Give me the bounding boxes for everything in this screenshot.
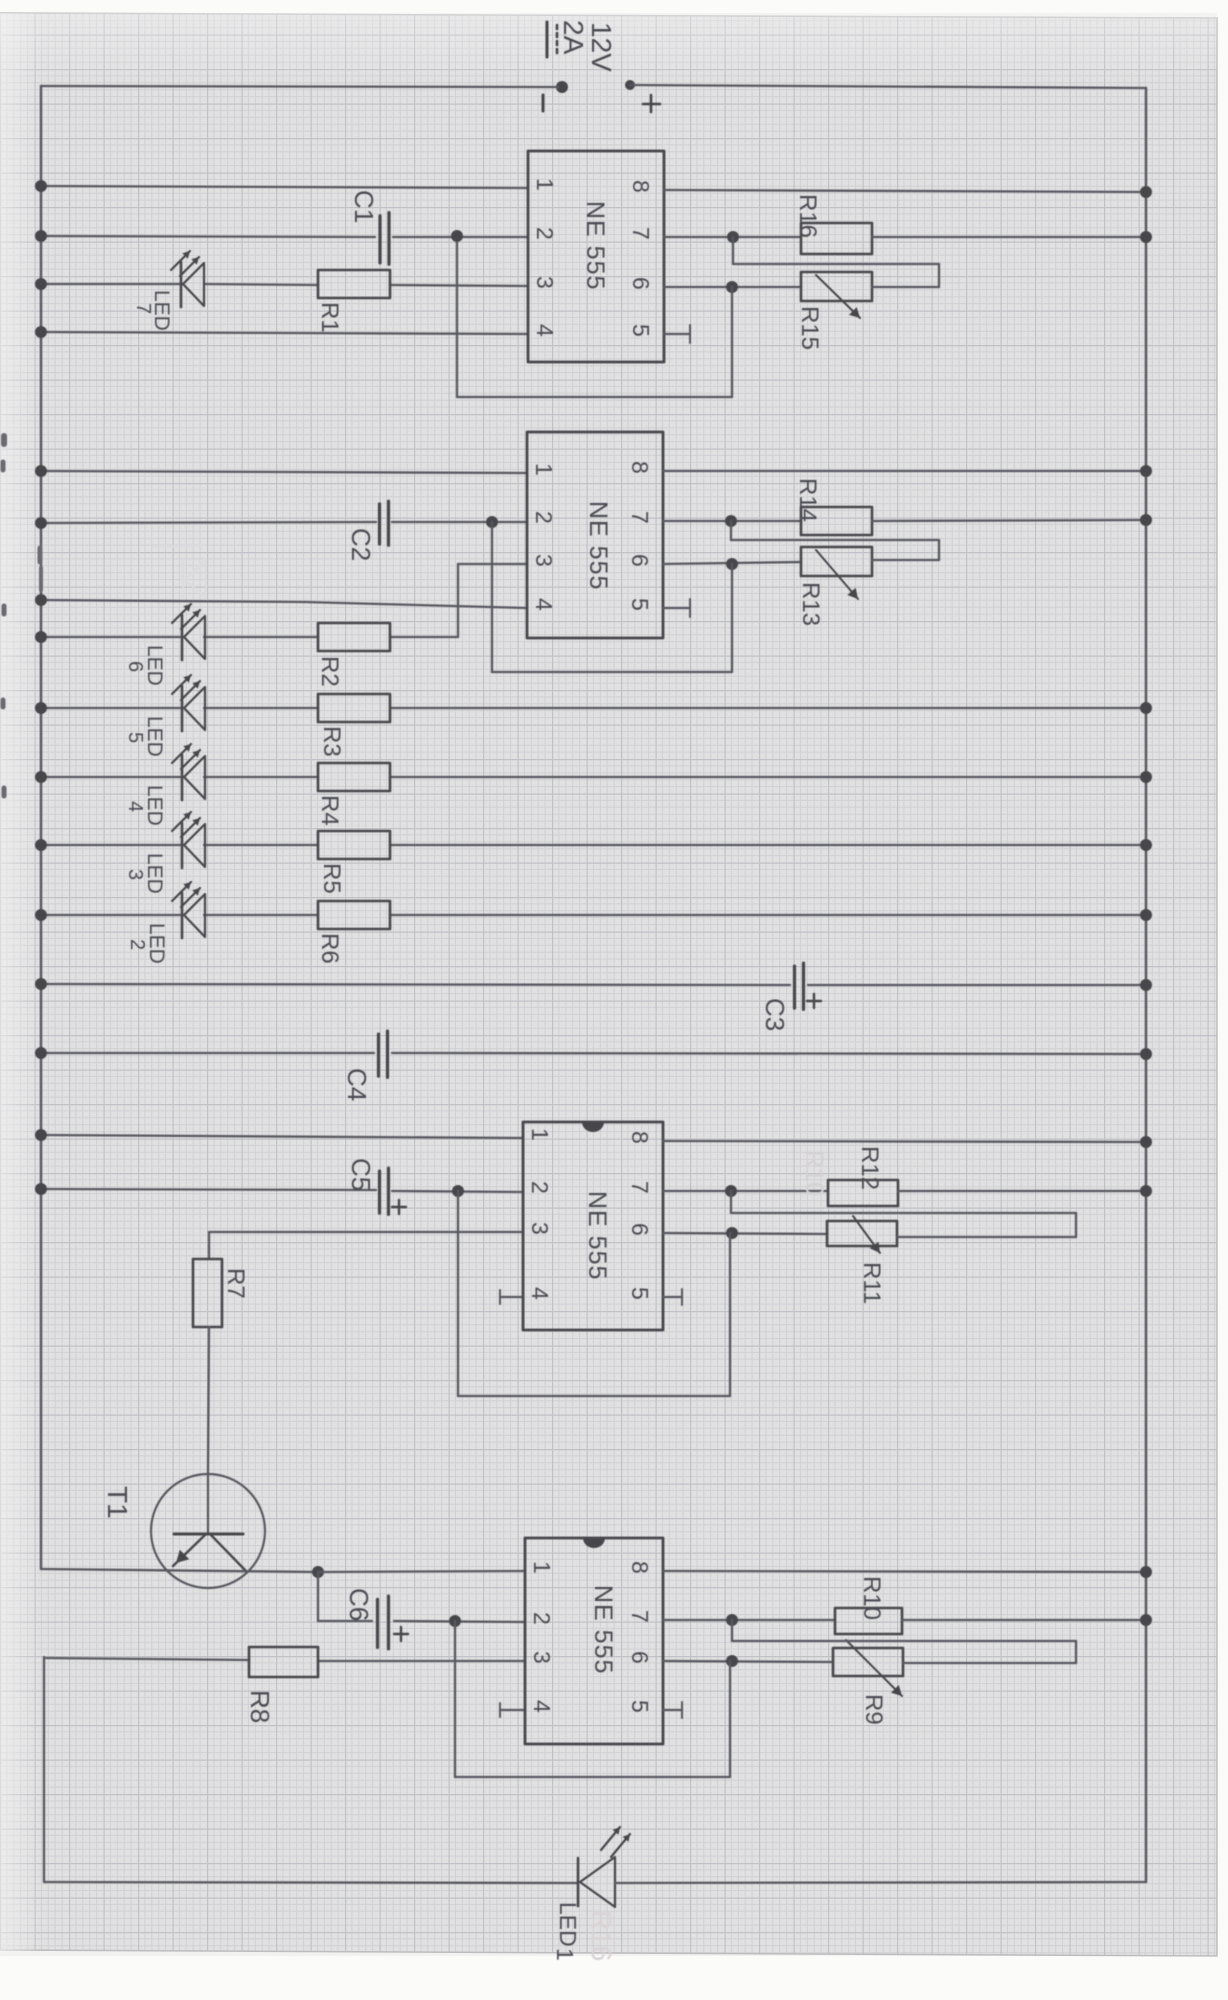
wire C3 rail [41, 984, 790, 985]
resistor R16 [801, 223, 872, 254]
svg-text:1: 1 [531, 463, 557, 476]
potentiometer R13 [801, 547, 872, 576]
wire IC1 pin8 to V+ [664, 190, 1146, 192]
svg-text:NE 555: NE 555 [584, 501, 612, 590]
LED4 [181, 755, 184, 800]
resistor R5 [318, 831, 390, 859]
wire R9 wiper loop [731, 1620, 733, 1641]
svg-text:5: 5 [627, 1700, 653, 1713]
wire IC2 pin1 rail [41, 471, 527, 473]
wire IC4 pin7 rail [663, 1619, 835, 1621]
svg-text:R10: R10 [858, 1576, 885, 1620]
svg-text:4: 4 [531, 598, 557, 611]
svg-text:1: 1 [552, 1948, 578, 1961]
ghost erased led [152, 545, 206, 598]
wire IC3 pin7 rail [663, 1190, 828, 1192]
wire R15 wiper loop [732, 237, 734, 264]
svg-text:R3: R3 [318, 726, 345, 757]
wire top rail right [630, 85, 1146, 88]
svg-text:1: 1 [532, 178, 558, 191]
svg-text:T1: T1 [102, 1486, 133, 1519]
smudge marks [3, 436, 41, 796]
svg-text:6: 6 [627, 1651, 653, 1664]
svg-text:R7: R7 [222, 1268, 249, 1299]
wire IC3 pin5 stub [663, 1296, 682, 1298]
svg-text:8: 8 [628, 180, 654, 193]
wire C4 rail [41, 1052, 374, 1054]
wire IC3 pin3 rail [209, 1231, 523, 1233]
plus terminal [625, 80, 635, 90]
wire IC4 pin2-pin6 tie [454, 1621, 456, 1777]
potentiometer R11 [827, 1221, 897, 1246]
svg-text:1: 1 [529, 1561, 555, 1574]
svg-text:C6: C6 [344, 1588, 374, 1621]
svg-text:2A: 2A [558, 20, 589, 55]
node T1 collector junction [312, 1566, 324, 1578]
wire LED5 rail [41, 707, 180, 709]
svg-text:12V: 12V [586, 22, 617, 72]
svg-text:5: 5 [627, 1287, 653, 1300]
capacitor C5 [378, 1171, 381, 1213]
svg-text:4: 4 [527, 1287, 553, 1300]
resistor R2 [318, 623, 390, 651]
LED1 [577, 1858, 580, 1906]
wire IC3 pin4 stub [500, 1296, 523, 1298]
op IC4 NE555 [525, 1538, 663, 1744]
wire LED3 rail [41, 844, 180, 846]
svg-text:4: 4 [124, 801, 146, 812]
wire IC2 pin7 rail [663, 520, 801, 522]
svg-text:C3: C3 [760, 998, 790, 1031]
wire left bottom drop [43, 1657, 45, 1882]
svg-text:R10: R10 [800, 1150, 828, 1196]
svg-text:R16: R16 [586, 1910, 617, 1961]
wire IC2 pin2 rail [41, 522, 376, 523]
wire IC2 pin4 rail [41, 600, 305, 602]
svg-text:R6: R6 [316, 933, 343, 964]
wire IC1 pin2 rail [41, 236, 375, 237]
svg-text:R16: R16 [794, 194, 821, 238]
svg-text:R5: R5 [318, 863, 345, 894]
op IC3 NE555 [523, 1122, 663, 1330]
svg-text:R15: R15 [796, 306, 823, 350]
svg-text:R8: R8 [245, 1690, 275, 1723]
svg-text:C5: C5 [346, 1158, 376, 1191]
wire IC1 pin5 stub [664, 333, 690, 335]
op IC1 NE555 [528, 151, 664, 362]
resistor R4 [318, 763, 390, 791]
wire IC3 pin8 to V+ [663, 1141, 1146, 1142]
capacitor C4 [377, 1034, 380, 1076]
wire top rail left [41, 86, 558, 87]
svg-text:R1: R1 [316, 302, 343, 333]
svg-text:2: 2 [126, 939, 148, 950]
svg-text:6: 6 [628, 277, 654, 290]
svg-text:R2: R2 [316, 656, 343, 687]
wire IC4 pin4 stub [500, 1709, 525, 1711]
svg-text:1: 1 [527, 1128, 553, 1141]
wire IC1 pin3 rail [41, 283, 180, 285]
svg-text:C1: C1 [349, 190, 379, 223]
svg-text:C4: C4 [342, 1068, 372, 1101]
svg-text:7: 7 [627, 1610, 653, 1623]
potentiometer R15 [801, 272, 872, 301]
svg-text:3: 3 [124, 869, 146, 880]
svg-text:8: 8 [627, 1131, 653, 1144]
wire IC1 pin1 rail [41, 186, 528, 188]
svg-text:5: 5 [627, 598, 653, 611]
capacitor C1 [378, 216, 381, 263]
LED5 [181, 686, 184, 731]
svg-text:R11: R11 [858, 1262, 885, 1304]
svg-text:4: 4 [529, 1700, 555, 1713]
svg-text:6: 6 [627, 554, 653, 567]
capacitor C3 [793, 966, 796, 1008]
wire IC4 pin6 rail [663, 1661, 833, 1662]
wire LED4 rail [41, 776, 180, 778]
svg-text:2: 2 [531, 511, 557, 524]
wire bottom rail right [615, 1882, 1146, 1883]
wire IC2 pin3 link [458, 563, 527, 565]
wire IC3 pin2 rail [41, 1189, 376, 1190]
svg-text:7: 7 [627, 511, 653, 524]
svg-text:6: 6 [627, 1223, 653, 1236]
svg-text:3: 3 [531, 554, 557, 567]
resistor R8 [249, 1647, 318, 1677]
wire IC3 pin1 rail [41, 1135, 523, 1138]
svg-text:3: 3 [527, 1222, 553, 1235]
wire left supply rail [40, 86, 43, 1569]
wire right supply rail [1145, 88, 1148, 1882]
wire C6 branch [317, 1572, 319, 1621]
svg-text:8: 8 [627, 1561, 653, 1574]
svg-text:R4: R4 [316, 795, 343, 826]
op IC2 NE555 [527, 432, 663, 638]
svg-text:2: 2 [527, 1181, 553, 1194]
wire T1 emitter rail [41, 1569, 318, 1572]
svg-text:R13: R13 [797, 582, 824, 626]
wire IC2 pin8 to V+ [663, 470, 1146, 472]
svg-text:7: 7 [627, 1181, 653, 1194]
DC symbol [546, 22, 549, 57]
wire IC2 pin5 stub [663, 607, 690, 609]
resistor R10 [835, 1608, 902, 1634]
svg-text:NE 555: NE 555 [581, 201, 609, 290]
svg-text:4: 4 [532, 324, 558, 337]
svg-text:3: 3 [532, 276, 558, 289]
wire IC2 pin2-pin6 tie [491, 522, 493, 672]
svg-text:LED: LED [555, 1902, 581, 1947]
resistor R1 [318, 270, 390, 298]
wire R11 wiper loop [730, 1191, 732, 1213]
wire IC3 pin6 rail [663, 1233, 827, 1234]
wire IC3 pin2-pin6 tie [457, 1191, 459, 1396]
wire IC4 pin5 stub [663, 1709, 682, 1711]
LED6 [181, 615, 184, 660]
svg-text:5: 5 [628, 324, 654, 337]
resistor R12 [828, 1180, 898, 1206]
potentiometer R9 [833, 1648, 903, 1676]
svg-text:7: 7 [628, 227, 654, 240]
LED2 [181, 893, 184, 938]
wire R13 wiper loop [730, 521, 732, 540]
svg-text:C2: C2 [346, 528, 376, 561]
wire bottom rail left [44, 1882, 578, 1883]
svg-text:7: 7 [132, 303, 154, 314]
wire R7 to T1 base [208, 1327, 209, 1475]
svg-text:8: 8 [627, 461, 653, 474]
svg-text:5: 5 [124, 732, 146, 743]
svg-text:6: 6 [124, 661, 146, 672]
transistor T1 [151, 1474, 265, 1588]
wire IC2 pin6 rail [663, 562, 801, 564]
wire IC1 pin2-pin6 tie [456, 236, 458, 397]
LED7 [180, 262, 183, 307]
minus terminal [556, 81, 568, 93]
wire IC4 pin8 to V+ [663, 1571, 1146, 1572]
LED3 [181, 823, 184, 868]
svg-text:R9: R9 [860, 1694, 887, 1725]
wire T1 collector to IC4 pin1 [318, 1571, 525, 1572]
resistor R3 [318, 694, 390, 722]
svg-text:3: 3 [529, 1651, 555, 1664]
svg-text:2: 2 [529, 1612, 555, 1625]
wire IC1 pin4 rail [41, 332, 528, 334]
svg-text:NE 555: NE 555 [583, 1191, 611, 1280]
svg-text:R14: R14 [794, 478, 821, 522]
wire LED6 rail [41, 636, 180, 638]
svg-text:2: 2 [532, 227, 558, 240]
svg-text:NE 555: NE 555 [589, 1585, 617, 1674]
capacitor C6 [376, 1599, 379, 1647]
wire LED2 rail [41, 914, 180, 916]
resistor R6 [318, 901, 390, 929]
svg-text:R12: R12 [856, 1146, 883, 1190]
resistor R7 [208, 1232, 210, 1259]
resistor R14 [801, 507, 872, 535]
wire R8 rail [46, 1658, 249, 1660]
wire IC1 pin6 rail [664, 286, 801, 288]
capacitor C2 [378, 504, 381, 544]
wire IC1 pin7 rail [664, 236, 801, 238]
